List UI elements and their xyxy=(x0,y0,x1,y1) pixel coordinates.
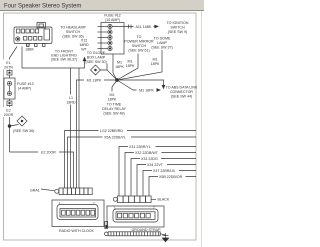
svg-text:(SEE SW 30): (SEE SW 30) xyxy=(85,60,106,64)
svg-text:X5A 22DB/YL: X5A 22DB/YL xyxy=(104,136,126,140)
wire A11 14BK to ignition switch xyxy=(112,25,158,29)
svg-text:(SEE SW 9): (SEE SW 9) xyxy=(168,30,187,34)
connector C2 fuse block #12 xyxy=(98,23,125,55)
svg-text:SWITCH: SWITCH xyxy=(66,30,81,34)
svg-text:POWER MIRROR: POWER MIRROR xyxy=(124,40,154,44)
svg-text:18PK: 18PK xyxy=(115,65,124,69)
label RADIO WITH CLOCK xyxy=(59,229,95,233)
svg-text:E1: E1 xyxy=(6,61,10,65)
wire L7 from headlamp switch to radio xyxy=(22,47,85,189)
svg-text:M1 18PK: M1 18PK xyxy=(139,89,154,93)
diagram frame xyxy=(4,11,202,247)
svg-text:X31 22BR/YL: X31 22BR/YL xyxy=(129,145,151,149)
svg-text:CONNECTOR: CONNECTOR xyxy=(170,90,193,94)
label TO POWER MIRROR SWITCH xyxy=(124,35,154,53)
wire from D1 to splice S1 xyxy=(10,125,19,127)
label M1 18PK (fuse feed) xyxy=(115,60,124,69)
svg-text:TO ABS DATA LINK: TO ABS DATA LINK xyxy=(166,86,198,90)
svg-text:18RD: 18RD xyxy=(79,43,89,47)
wire X32 22DB/WT xyxy=(125,153,196,197)
svg-text:A11 14BK: A11 14BK xyxy=(136,25,153,29)
connector strip gray (radio) xyxy=(55,188,92,195)
svg-text:E2: E2 xyxy=(6,108,10,112)
svg-text:X33 22DG: X33 22DG xyxy=(141,157,158,161)
svg-text:M1: M1 xyxy=(128,59,133,63)
wire X34 22VT xyxy=(137,165,196,197)
svg-text:M1: M1 xyxy=(117,60,122,64)
svg-text:M1 18PK: M1 18PK xyxy=(87,79,102,83)
label E1 20TN xyxy=(3,60,15,70)
wire M1 to ABS data link (lower) xyxy=(117,80,160,91)
label LG2 22BR/RD xyxy=(99,128,128,134)
label L7 18BK xyxy=(25,43,34,52)
label E2 20OR on wire xyxy=(38,149,59,155)
svg-text:X34 22VT: X34 22VT xyxy=(147,163,164,167)
radio box 2 xyxy=(107,206,164,227)
wire M1 from power mirror switch xyxy=(117,54,138,81)
svg-text:X37 22BR/LB: X37 22BR/LB xyxy=(153,169,175,173)
wire M1 to radio xyxy=(77,80,118,188)
label GROUND STRAP xyxy=(132,228,162,232)
node splice S1 xyxy=(8,125,11,128)
svg-text:BLACK: BLACK xyxy=(158,198,170,202)
wire X5B 22DB/OR xyxy=(149,177,196,197)
connector C1 headlamp switch xyxy=(14,23,52,47)
svg-text:TO GLOVE: TO GLOVE xyxy=(87,51,106,55)
label TO HEADLAMP SWITCH xyxy=(60,26,86,39)
svg-text:TO TIME: TO TIME xyxy=(107,103,122,107)
label X5B 22DB/OR xyxy=(158,174,186,180)
wire E1 from headlamp switch xyxy=(10,47,18,71)
svg-text:20TN: 20TN xyxy=(4,65,13,69)
svg-text:(4 AMP): (4 AMP) xyxy=(18,87,31,91)
svg-text:(SEE SW 61): (SEE SW 61) xyxy=(128,49,149,53)
svg-text:20OR: 20OR xyxy=(4,113,14,117)
svg-text:18PK: 18PK xyxy=(151,62,160,66)
wire M1 to time delay relay xyxy=(112,80,117,92)
label TO ABS DATA LINK CONNECTOR xyxy=(166,86,198,99)
label FUSE #12 (10 AMP) xyxy=(104,14,121,23)
label X33 22DG xyxy=(140,156,161,162)
wire X31 22BR/YL xyxy=(119,147,196,197)
connector C4 radio black xyxy=(113,206,158,223)
label TO FRONT END LIGHTING xyxy=(51,50,77,62)
label M1 18PK on wire to radio xyxy=(84,77,104,83)
label M1 18PK (time delay) xyxy=(108,93,117,102)
fuse F13 xyxy=(4,75,15,99)
svg-text:TO DOME: TO DOME xyxy=(154,37,171,41)
svg-text:SWITCH: SWITCH xyxy=(132,44,147,48)
wire from D2 to splice xyxy=(101,64,118,81)
ground strap terminal tab xyxy=(105,222,108,229)
wire X5A 22DB/YL speaker xyxy=(68,137,197,188)
svg-text:L7: L7 xyxy=(27,43,31,47)
wire M1 to ABS data link (upper) xyxy=(117,80,165,89)
svg-text:TO: TO xyxy=(137,35,142,39)
svg-text:SWITCH: SWITCH xyxy=(170,26,185,30)
wire M1 from dome lamp xyxy=(117,50,162,80)
svg-text:X32 22DB/WT: X32 22DB/WT xyxy=(135,151,159,155)
connector symbol D1 xyxy=(17,116,27,126)
label GRA1 xyxy=(30,189,40,193)
svg-text:LG2 22BR/RD: LG2 22BR/RD xyxy=(100,129,123,133)
label TO GLOVE BOX LAMP xyxy=(85,51,106,64)
svg-text:(SEE SW 48): (SEE SW 48) xyxy=(103,112,124,116)
label A11 14BK xyxy=(134,24,154,30)
inline connector below fuse xyxy=(7,101,12,106)
radio box xyxy=(52,200,104,227)
label M1 18PK (power mirror) xyxy=(126,59,135,68)
svg-text:M1: M1 xyxy=(153,57,158,61)
wire X33 22DG xyxy=(131,159,196,197)
svg-text:18BK: 18BK xyxy=(25,47,34,51)
label M1 18PK (dome lamp) xyxy=(151,57,160,66)
connector symbol D2 glove box lamp xyxy=(91,65,101,75)
svg-text:FUSE #13: FUSE #13 xyxy=(17,82,34,86)
wire GRA1 leader xyxy=(41,189,55,191)
label TO TIME DELAY RELAY xyxy=(102,103,127,116)
svg-text:18RD: 18RD xyxy=(66,100,76,104)
title bar xyxy=(0,0,204,11)
ground xyxy=(160,233,169,242)
svg-text:(SEE SW 36,37): (SEE SW 36,37) xyxy=(51,58,77,62)
svg-text:18PK: 18PK xyxy=(108,97,117,101)
wire E2 horizontal run to radio xyxy=(10,152,74,188)
label X34 22VT xyxy=(146,162,167,168)
svg-text:GRA1: GRA1 xyxy=(30,189,40,193)
svg-text:Four Speaker Stereo System: Four Speaker Stereo System xyxy=(4,4,81,10)
label X31 22BR/YL xyxy=(128,144,156,150)
connector C3 radio with clock xyxy=(57,201,98,220)
wire below fuse F13 xyxy=(9,99,11,152)
connector strip black (radio) xyxy=(113,196,151,203)
svg-text:M1: M1 xyxy=(110,93,115,97)
label X37 22BR/LB xyxy=(152,168,179,174)
label X12 18RD WT xyxy=(79,38,89,51)
wire M1 from fuse #12 to splice xyxy=(113,54,117,80)
wire stub to front end lighting xyxy=(83,58,86,69)
svg-text:BOX LAMP: BOX LAMP xyxy=(87,56,106,60)
ground strap braid xyxy=(105,232,161,236)
svg-text:TO HEADLAMP: TO HEADLAMP xyxy=(60,26,86,30)
svg-text:DELAY RELAY: DELAY RELAY xyxy=(102,107,127,111)
svg-text:LAMP: LAMP xyxy=(157,41,167,45)
label FUSE #13 (4 AMP) xyxy=(17,82,34,91)
label TO DOME LAMP xyxy=(151,37,172,50)
label BLACK xyxy=(158,198,170,202)
label M1 18PK (ABS) xyxy=(137,87,157,93)
svg-text:E2 20OR: E2 20OR xyxy=(41,151,56,155)
label TO IGNITION SWITCH xyxy=(167,21,189,34)
node splice S2 xyxy=(116,79,119,82)
svg-text:X12: X12 xyxy=(81,38,87,42)
svg-text:18PK: 18PK xyxy=(126,64,135,68)
svg-text:(SEE SW 36): (SEE SW 36) xyxy=(13,129,34,133)
wire X37 22BR/LB xyxy=(143,171,196,197)
wire BLACK leader xyxy=(152,198,157,200)
label E2 20OR xyxy=(3,107,15,117)
svg-text:L1: L1 xyxy=(69,96,73,100)
label X32 22DB/WT xyxy=(134,150,162,156)
label L1 18RD on bundle wire xyxy=(66,95,76,105)
svg-text:(SEE SW 44): (SEE SW 44) xyxy=(171,95,192,99)
svg-text:FUSE #12: FUSE #12 xyxy=(104,14,121,18)
svg-text:(10 AMP): (10 AMP) xyxy=(105,18,120,22)
inline connector on wire E1 xyxy=(7,71,12,76)
wire LG2 22BR/RD left speaker xyxy=(65,131,197,189)
label (SEE SW 36) xyxy=(13,129,34,133)
svg-text:X5B 22DB/OR: X5B 22DB/OR xyxy=(159,175,183,179)
svg-text:TO IGNITION: TO IGNITION xyxy=(167,21,189,25)
label X5A 22DB/YL xyxy=(103,134,132,140)
svg-text:(SEE SW 37): (SEE SW 37) xyxy=(151,46,172,50)
svg-text:RADIO WITH CLOCK: RADIO WITH CLOCK xyxy=(59,229,95,233)
